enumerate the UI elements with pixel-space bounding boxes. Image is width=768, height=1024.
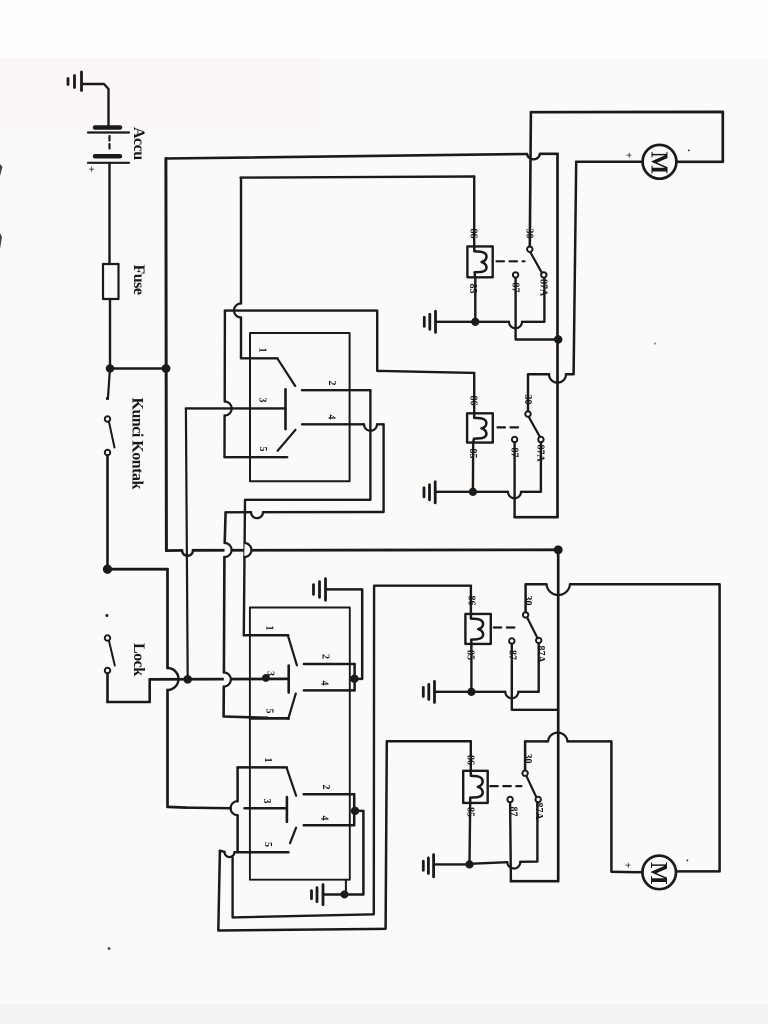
relay U4 coil 86 lead (470, 741, 472, 771)
relay U1 coil 86 lead (473, 177, 475, 247)
S2 pin2 (304, 663, 355, 666)
node bus679 pin3-box1 (185, 676, 191, 682)
svg-text:86: 86 (466, 596, 477, 606)
relay U3 blade (527, 617, 538, 638)
node J1 (battery/fuse junction) (107, 366, 113, 372)
svg-text:85: 85 (465, 807, 476, 817)
svg-text:86: 86 (468, 396, 479, 406)
S1 pin5 (225, 456, 288, 458)
S3 pin4 (304, 824, 355, 827)
wire lock to bus (staircase) (108, 679, 150, 702)
wire pin5-box3 corner link (220, 851, 238, 853)
svg-text:85: 85 (467, 284, 478, 294)
ground G4 (relay U1) (424, 311, 435, 332)
wire U3-87 to x558 (512, 644, 558, 710)
S1 blade lower (278, 430, 296, 451)
svg-text:87: 87 (509, 448, 520, 458)
S3 pin2 (304, 793, 355, 796)
relay U4 contact 87A (536, 797, 541, 802)
ground G6 (relay U3) (423, 681, 434, 702)
relay U4 85 lead (468, 803, 471, 865)
S3 pin5 (238, 851, 289, 854)
battery BT1 (Accu) (88, 128, 129, 163)
wire bus679 (pin3-box2 line) (150, 678, 289, 681)
ground G2 (314, 579, 326, 601)
relay U3 contact 87 (509, 638, 514, 643)
relay U1 contact 87A (541, 272, 546, 277)
relay U4 dashed link (490, 785, 521, 787)
wire line310 to relay2-86 (225, 311, 474, 373)
wire top feed line y157 (166, 154, 558, 159)
S1 pin4 (with dip under pin2 vertical) (302, 423, 384, 425)
svg-text:5: 5 (262, 842, 273, 847)
relay U2 coil winding (473, 413, 486, 442)
wire L2 hop over bus679 (168, 668, 179, 690)
svg-text:85: 85 (467, 449, 478, 459)
wire x557 upper feed vertical (515, 154, 558, 517)
S1 T-bar (284, 389, 287, 429)
relay U2 85 lead (472, 443, 475, 492)
node U1-85 (472, 319, 478, 325)
S1 pin1 (241, 357, 278, 359)
svg-text:87: 87 (510, 283, 521, 293)
svg-text:2: 2 (326, 381, 337, 386)
svg-text:.: . (685, 149, 697, 152)
wire U2-87 to x557 bottom (513, 442, 515, 517)
svg-text:87A: 87A (533, 803, 544, 821)
svg-text:1: 1 (262, 758, 273, 763)
wire x225 hop over bus679 (224, 673, 231, 687)
wire S3 pin1-pin5 vertical (hop over pin3) (236, 767, 239, 852)
ground G0 (battery ground) (68, 72, 109, 126)
svg-text:85: 85 (465, 650, 476, 660)
wire U1-87 to x557 (516, 278, 559, 340)
S3 blade upper (287, 769, 296, 796)
wire G5 stem + hop 87 + 87A link (436, 442, 541, 492)
S3 blade lower (290, 828, 296, 844)
svg-text:Accu: Accu (130, 127, 147, 160)
relay U2 contact 87 (512, 437, 517, 442)
wire bus550 (166, 548, 558, 552)
wire U2-30 to motor1 plus (hop x557) (528, 162, 576, 411)
relay U2 dashed link (498, 426, 524, 428)
svg-text:+: + (622, 862, 634, 868)
relay U4 blade (527, 776, 537, 796)
node U4-85 (467, 862, 473, 868)
wire J3 to L2 (108, 568, 168, 571)
S2 blade upper (288, 637, 297, 666)
svg-text:30: 30 (522, 395, 533, 405)
wire staircase A (pin5-box3 to relay4-86 via x386) (218, 741, 470, 930)
svg-text:5: 5 (264, 709, 275, 714)
relay U1 blade (531, 253, 542, 273)
svg-text:Lock: Lock (130, 643, 147, 676)
wire U4-30 to motor2 plus (hop over x558) (525, 741, 643, 872)
svg-text:3: 3 (261, 799, 272, 804)
S2 pin1 (244, 634, 288, 637)
wire bus550 dip under pin3 vertical (182, 550, 193, 556)
svg-text:1: 1 (257, 348, 268, 353)
wire x245 hop over bus550 (244, 543, 251, 557)
svg-text:M: M (645, 862, 671, 885)
switch S2/S3 outer box (250, 608, 350, 880)
svg-text:M: M (646, 152, 672, 175)
motor M2 (642, 856, 676, 890)
node J2 (junction on L1) (163, 365, 169, 371)
ground G7 (relay U4) (423, 855, 433, 877)
S3 T-bar (286, 797, 289, 822)
svg-text:5: 5 (257, 447, 268, 452)
S3 pin1 (238, 766, 287, 769)
S2 pin4 (304, 689, 355, 692)
fuse F1 (103, 264, 119, 299)
wire G6 stem + hop 87 + 87A link (435, 643, 538, 692)
wire S3 tie to ground G3 (324, 811, 364, 895)
relay U1 coil box (467, 246, 492, 277)
relay U4 coil winding (470, 771, 483, 803)
relay U1 coil winding (474, 246, 486, 277)
S1 blade upper (278, 359, 296, 386)
relay U2 contact 30 (525, 411, 530, 416)
relay U3 contact 87A (536, 638, 541, 643)
S2 blade lower (288, 694, 296, 719)
switch SW2 (Lock) (105, 614, 115, 702)
wire U4-87 lead (509, 802, 512, 881)
ground G3 (312, 885, 324, 905)
node relay1-87 tie (555, 337, 561, 343)
wire L1 (battery feed vertical) (164, 159, 168, 551)
switch SW1 (Kunci Kontak) (105, 369, 115, 570)
wire L2 (lock feed to box3 pin3) (168, 569, 187, 807)
wire x225 hop over bus550 (224, 543, 231, 557)
node J3 (Lock junction) (104, 566, 111, 573)
ground G5 (relay U2) (424, 482, 435, 503)
wire battery to fuse (108, 163, 110, 264)
svg-text:Fuse: Fuse (130, 265, 147, 295)
relay U2 coil 86 lead (473, 373, 475, 413)
relay U3 coil winding (471, 614, 483, 644)
svg-text:87: 87 (508, 807, 519, 817)
relay U1 85 lead (474, 277, 476, 322)
relay U3 dashed link (494, 626, 520, 628)
relay U1 contact 30 (527, 247, 532, 252)
wire relay1-86 line (241, 177, 475, 178)
wire G4 stem + hop 87 + 87A link (436, 278, 544, 322)
wire U3-30 to motor2 minus (hop x558) (526, 584, 720, 871)
wire motor1 plus lead (576, 161, 642, 164)
switch S1 box (250, 333, 350, 481)
svg-text:30: 30 (522, 754, 533, 764)
svg-text:30: 30 (524, 229, 535, 239)
svg-text:30: 30 (522, 596, 533, 606)
relay U3 contact 30 (523, 612, 528, 617)
wire S2 pins2/4 tie (353, 664, 356, 690)
S2 T-bar (287, 666, 290, 693)
speck marks (108, 947, 111, 950)
wire pin3-box3 line (186, 806, 287, 809)
S1 pin2 (302, 389, 370, 391)
motor M1 (643, 145, 677, 179)
wire pin1-box1 vertical (hop over line310) (240, 178, 242, 359)
relay U2 coil box (467, 413, 493, 442)
S1 pin3 (186, 407, 286, 409)
wire pin5-box1 vertical (hop over pin3) (223, 311, 226, 458)
wire pin4-box1 to lineB (226, 424, 384, 512)
relay U1 contact 87 (513, 272, 518, 277)
svg-text:87A: 87A (535, 646, 546, 664)
wire G7 stem + hop 87 + 87A link (434, 802, 537, 864)
wire junction to L1 (110, 367, 166, 370)
node bus550/x558 (555, 547, 561, 553)
node bus679 at box2 edge (263, 675, 268, 680)
svg-text:86: 86 (465, 755, 476, 765)
svg-text:87A: 87A (535, 445, 546, 463)
S2 pin5 (250, 717, 289, 720)
node G3 stem / box stub (342, 892, 348, 898)
wire x558 lower feed vertical (511, 550, 558, 881)
wire pin3-box1 vertical (186, 408, 188, 679)
svg-text:87: 87 (507, 650, 518, 660)
svg-text:87A: 87A (538, 279, 549, 297)
svg-text:2: 2 (320, 654, 331, 659)
svg-text:2: 2 (320, 785, 331, 790)
svg-text:+: + (623, 152, 635, 158)
relay U3 coil 86 lead (470, 586, 472, 614)
node U2-85 (470, 489, 476, 495)
node U3-85 (469, 689, 475, 695)
wire lineB dip under x245 (251, 512, 263, 518)
node S2 tie (351, 676, 357, 682)
text labels (all rotated 90deg CW) (85, 127, 697, 885)
relay U3 85 lead (470, 644, 472, 692)
svg-text:3: 3 (265, 671, 276, 676)
svg-text:4: 4 (319, 681, 330, 686)
relay U4 coil box (463, 771, 488, 803)
svg-text:1: 1 (264, 626, 275, 631)
relay U3 coil box (465, 614, 490, 644)
relay U1 dashed link (497, 260, 525, 262)
node S3 tie (352, 808, 358, 814)
relay U4 contact 87 (507, 797, 512, 802)
wire S2 tie to ground G2 (326, 589, 362, 679)
wire S3 pins2/4 tie (353, 794, 356, 825)
svg-text:.: . (684, 859, 696, 862)
wire staircase B (to relay3-86 via x374) (233, 586, 471, 918)
wire pin2-box1 to lineA to pin1-box2 (244, 390, 371, 635)
wire fuse to junction (109, 299, 111, 369)
svg-text:4: 4 (319, 816, 330, 821)
relay U4 contact 30 (522, 771, 527, 776)
wire motor1 minus loop (531, 112, 723, 162)
svg-text:Kunci Kontak: Kunci Kontak (129, 398, 146, 490)
wire hop at relay1-30 vertical (527, 154, 540, 160)
relay U2 contact 87A (538, 437, 543, 442)
svg-text:4: 4 (326, 415, 337, 420)
wire box stub to G3 stem (345, 880, 347, 895)
svg-text:+: + (85, 166, 97, 172)
svg-text:86: 86 (468, 229, 479, 239)
svg-text:3: 3 (257, 398, 268, 403)
wire x225 vertical to pin5-box2 (hops bus550, bus679) (224, 512, 268, 718)
relay U2 blade (529, 418, 540, 437)
wire U1-30 to motor1 line (530, 112, 531, 246)
